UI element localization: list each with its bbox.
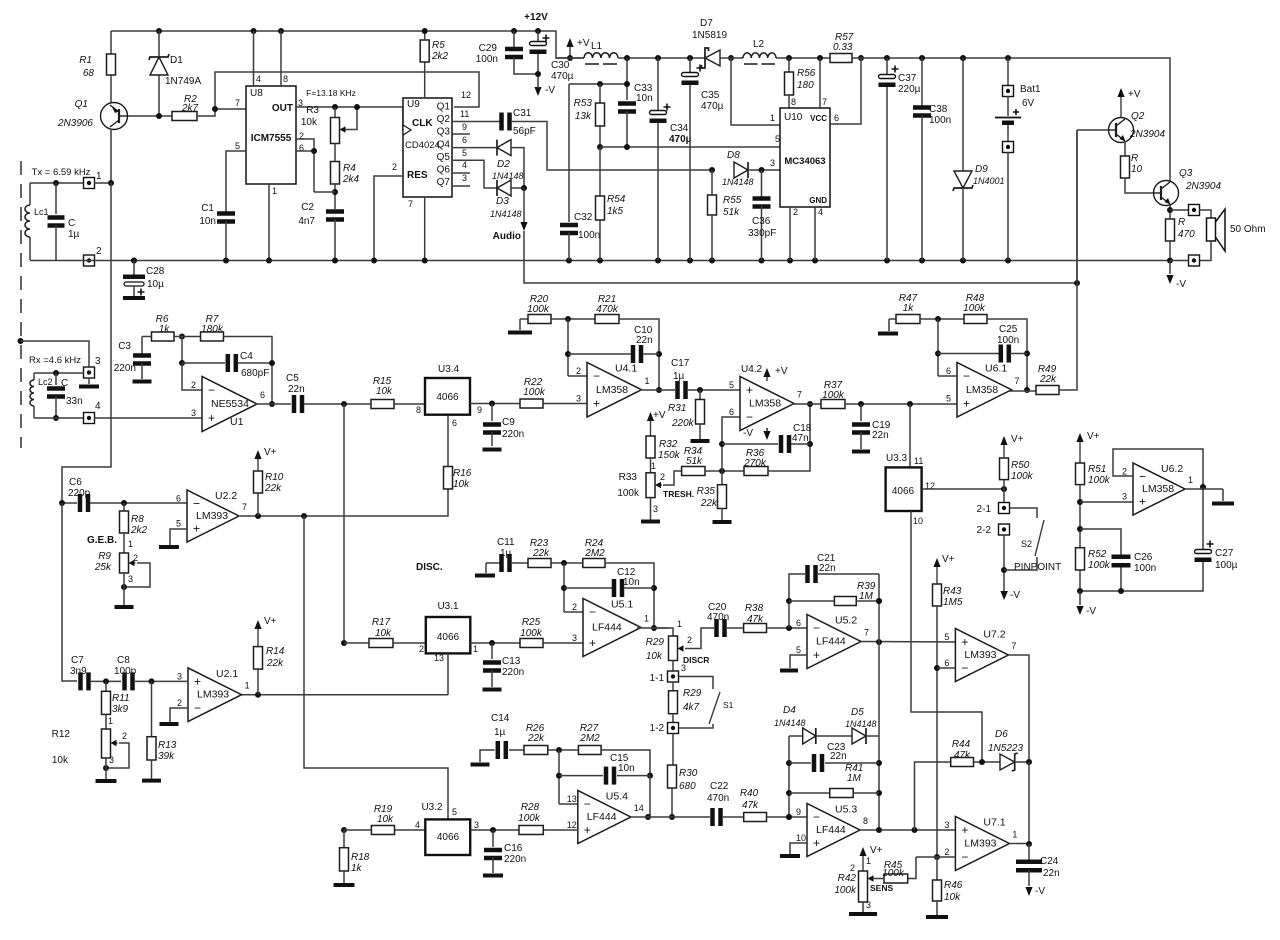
svg-text:2N3904: 2N3904: [1129, 129, 1165, 140]
coil Lc2 shield ground: [18, 338, 24, 344]
svg-text:1: 1: [645, 376, 650, 386]
svg-text:U9: U9: [407, 99, 420, 110]
capacitor C35 470u electrolytic: [687, 55, 693, 61]
wire U6.2 feedback: [1113, 449, 1203, 487]
svg-text:C35: C35: [701, 90, 720, 101]
svg-text:22n: 22n: [819, 563, 836, 574]
capacitor C30 470u electrolytic: [535, 28, 541, 34]
resistor R54: [597, 144, 603, 150]
svg-text:47k: 47k: [954, 750, 971, 761]
resistor R20 100k: [520, 318, 528, 320]
node U2.2 output: [240, 489, 448, 516]
svg-text:2: 2: [392, 162, 397, 172]
svg-text:1N5819: 1N5819: [692, 30, 727, 41]
op-amp U4.1 LM358: [568, 375, 587, 377]
op-amp U7.1 LM393: [955, 817, 1009, 871]
svg-text:11: 11: [914, 456, 923, 466]
svg-text:SENS: SENS: [870, 883, 893, 893]
svg-text:10k: 10k: [376, 386, 393, 397]
svg-text:+: +: [593, 397, 600, 411]
resistor R55: [711, 170, 713, 195]
svg-text:8: 8: [416, 405, 421, 415]
svg-text:3: 3: [191, 408, 196, 418]
svg-text:R17: R17: [372, 617, 391, 628]
svg-text:10n: 10n: [618, 763, 635, 774]
resistor R57 0.33: [830, 54, 852, 63]
svg-text:G.E.B.: G.E.B.: [87, 535, 117, 546]
wire U5.2 plus ground: [790, 655, 807, 668]
svg-text:R40: R40: [740, 788, 759, 799]
resistor R48 100k: [964, 315, 987, 324]
capacitor C8 100p: [122, 672, 127, 690]
svg-text:R18: R18: [351, 852, 370, 863]
svg-text:2: 2: [576, 366, 581, 376]
svg-text:V+: V+: [870, 845, 883, 856]
svg-text:10k: 10k: [453, 479, 470, 490]
svg-text:+: +: [813, 836, 820, 850]
svg-text:2: 2: [850, 863, 855, 873]
svg-text:R16: R16: [453, 468, 472, 479]
resistor R30 680: [672, 734, 674, 766]
svg-text:R5: R5: [432, 40, 445, 51]
capacitor C34 470u electrolytic: [655, 55, 661, 61]
wire rail right section: [852, 58, 1170, 181]
svg-text:3: 3: [128, 574, 133, 584]
svg-text:5: 5: [944, 632, 949, 642]
svg-text:3: 3: [572, 633, 577, 643]
svg-text:U1: U1: [230, 416, 244, 428]
wire Audio arrow: [523, 188, 525, 222]
svg-text:22k: 22k: [700, 498, 718, 509]
capacitor C20 470n: [714, 619, 719, 637]
svg-text:7: 7: [242, 502, 247, 512]
schottky diode D7 1N5819: [705, 50, 720, 66]
svg-text:U4.1: U4.1: [615, 363, 637, 375]
svg-text:10: 10: [913, 516, 923, 526]
svg-text:R29: R29: [646, 637, 665, 648]
svg-text:PINPOINT: PINPOINT: [1014, 562, 1061, 573]
svg-text:7: 7: [822, 97, 827, 107]
diode D3 1N4148: [452, 160, 497, 188]
svg-text:Lc2: Lc2: [38, 377, 53, 387]
resistor R37 100k: [821, 400, 845, 409]
op-amp U6.1 LM358: [938, 375, 957, 377]
potentiometer R42 100k SENS: [862, 855, 864, 871]
svg-text:1N4148: 1N4148: [490, 209, 522, 219]
svg-text:180: 180: [797, 80, 814, 91]
svg-text:1µ: 1µ: [673, 371, 685, 382]
svg-text:C36: C36: [752, 216, 771, 227]
svg-text:R25: R25: [522, 617, 541, 628]
svg-text:R11: R11: [112, 693, 130, 704]
svg-text:V+: V+: [264, 616, 277, 627]
capacitor C1: [217, 211, 235, 216]
svg-text:1: 1: [108, 716, 113, 726]
svg-text:R50: R50: [1011, 460, 1030, 471]
wire U8 pins 4 8 to rail: [251, 28, 257, 34]
wire U8 pin 1 to bus: [268, 184, 270, 260]
battery Bat1 6V: [1005, 55, 1011, 61]
svg-text:Q7: Q7: [437, 177, 451, 188]
svg-text:Rx =4.6 kHz: Rx =4.6 kHz: [29, 355, 81, 366]
power -V arrow below C30: [534, 87, 541, 96]
svg-text:6: 6: [796, 618, 801, 628]
svg-text:R44: R44: [952, 739, 971, 750]
svg-text:51k: 51k: [686, 456, 703, 467]
svg-text:-V: -V: [1176, 279, 1186, 290]
svg-text:100n: 100n: [929, 115, 951, 126]
wire D6 to U7.1 output: [1028, 762, 1030, 844]
resistor R6: [152, 332, 175, 341]
svg-text:7: 7: [408, 199, 413, 209]
svg-text:39k: 39k: [158, 751, 175, 762]
svg-text:100k: 100k: [1011, 471, 1034, 482]
power +V arrow: [569, 46, 571, 58]
svg-text:L1: L1: [591, 41, 603, 52]
svg-text:100k: 100k: [963, 303, 986, 314]
svg-text:14: 14: [634, 803, 644, 813]
resistor R32 150k: [650, 420, 652, 436]
wire to U1 minus: [182, 363, 202, 390]
svg-text:10k: 10k: [52, 755, 69, 766]
svg-text:22k: 22k: [266, 658, 284, 669]
resistor R14 22k: [254, 647, 263, 670]
svg-text:+: +: [1139, 495, 1146, 509]
svg-text:+: +: [194, 674, 201, 688]
svg-text:2M2: 2M2: [579, 733, 600, 744]
svg-text:2-2: 2-2: [977, 525, 992, 536]
op-amp U1 NE5534: [202, 377, 257, 432]
wire U2.1 minus ground: [170, 708, 188, 722]
svg-text:1: 1: [651, 461, 656, 471]
svg-text:U10: U10: [784, 112, 803, 123]
svg-text:270k: 270k: [743, 458, 767, 469]
svg-text:Q2: Q2: [437, 114, 451, 125]
svg-text:C4: C4: [240, 351, 253, 362]
svg-text:D7: D7: [700, 18, 713, 29]
svg-text:R55: R55: [723, 195, 742, 206]
svg-text:2: 2: [793, 207, 798, 217]
IC U9 CD4024: [403, 98, 452, 197]
wire R to Q3 base: [1125, 178, 1154, 193]
svg-text:680pF: 680pF: [241, 368, 269, 379]
svg-text:6: 6: [834, 113, 839, 123]
resistor R56: [786, 55, 792, 61]
svg-text:ICM7555: ICM7555: [251, 133, 292, 144]
svg-text:68: 68: [83, 68, 95, 79]
svg-text:LM393: LM393: [964, 649, 996, 661]
svg-text:C1: C1: [201, 203, 214, 214]
svg-text:2k2: 2k2: [431, 51, 449, 62]
resistor R29 4k7: [672, 682, 674, 691]
svg-text:C34: C34: [670, 123, 689, 134]
svg-text:4: 4: [415, 820, 420, 830]
svg-text:10k: 10k: [646, 651, 663, 662]
svg-text:C5: C5: [286, 373, 299, 384]
resistor R23 22k: [528, 559, 551, 568]
svg-text:C30: C30: [551, 60, 570, 71]
op-amp U4.2 LM358: [740, 377, 794, 431]
svg-text:5: 5: [729, 380, 734, 390]
svg-text:47k: 47k: [747, 614, 764, 625]
op-amp U2.2 LM393: [187, 490, 239, 542]
svg-text:U3.4: U3.4: [438, 364, 460, 375]
resistor R34 51k: [682, 467, 705, 476]
capacitor C22 470n: [710, 808, 715, 826]
capacitor C Tx 1u: [53, 180, 59, 186]
svg-text:22k: 22k: [527, 733, 545, 744]
svg-text:R10: R10: [265, 472, 284, 483]
svg-text:1: 1: [644, 614, 649, 624]
svg-text:R29: R29: [683, 688, 702, 699]
svg-text:100k: 100k: [617, 488, 640, 499]
svg-text:10k: 10k: [377, 814, 394, 825]
svg-text:D8: D8: [727, 150, 740, 161]
node U5.1 output: [651, 625, 657, 631]
svg-text:9: 9: [462, 122, 467, 132]
svg-text:2: 2: [687, 635, 692, 645]
op-amp U5.1 LF444: [564, 611, 583, 613]
svg-text:150k: 150k: [658, 450, 681, 461]
op-amp U2.1 LM393: [188, 668, 242, 722]
svg-text:7: 7: [1011, 641, 1016, 651]
svg-text:1N4148: 1N4148: [774, 718, 806, 728]
svg-text:470µ: 470µ: [669, 134, 692, 145]
svg-text:+12V: +12V: [524, 12, 548, 23]
svg-text:100µ: 100µ: [1215, 560, 1238, 571]
svg-text:1µ: 1µ: [500, 548, 512, 559]
svg-text:−: −: [813, 810, 820, 824]
resistor R21 470k: [595, 315, 619, 324]
svg-text:2: 2: [944, 847, 949, 857]
svg-text:220k: 220k: [671, 418, 695, 429]
node U6.1 output: [1024, 387, 1030, 393]
svg-text:U3.3: U3.3: [886, 453, 908, 464]
svg-text:C9: C9: [502, 417, 515, 428]
zener diode D6 1N5223: [1000, 754, 1015, 770]
svg-text:U6.2: U6.2: [1161, 463, 1183, 475]
svg-text:10n: 10n: [636, 93, 653, 104]
capacitor C16 220n: [492, 830, 494, 847]
resistor R41 1M: [789, 792, 829, 794]
svg-text:VCC: VCC: [810, 114, 827, 123]
resistor R44 47k: [951, 758, 974, 767]
svg-text:2k7: 2k7: [181, 103, 199, 114]
svg-text:C26: C26: [1134, 552, 1153, 563]
svg-text:LM358: LM358: [1142, 483, 1174, 495]
svg-text:10k: 10k: [944, 892, 961, 903]
svg-text:S1: S1: [723, 700, 734, 710]
svg-text:2N3906: 2N3906: [57, 118, 93, 129]
wire R44 tap: [915, 762, 951, 830]
svg-text:7: 7: [797, 390, 802, 400]
svg-text:22k: 22k: [1039, 374, 1057, 385]
wire left vertical to C7: [62, 503, 77, 681]
svg-text:Q3: Q3: [1179, 168, 1193, 179]
svg-text:LF444: LF444: [816, 636, 846, 648]
transistor Q3 2N3904: [1154, 181, 1179, 206]
svg-text:330pF: 330pF: [748, 228, 776, 239]
svg-text:220n: 220n: [502, 429, 524, 440]
svg-text:C31: C31: [513, 108, 532, 119]
svg-text:6: 6: [462, 135, 467, 145]
node R4 C2 junction: [334, 184, 336, 209]
svg-text:Audio: Audio: [493, 231, 521, 242]
svg-text:3n9: 3n9: [70, 666, 87, 677]
svg-text:C3: C3: [118, 341, 131, 352]
svg-text:100n: 100n: [476, 54, 498, 65]
resistor R31 220k: [699, 390, 701, 400]
svg-text:13k: 13k: [575, 111, 592, 122]
svg-text:LF444: LF444: [816, 824, 846, 836]
svg-text:1k: 1k: [159, 324, 171, 335]
svg-text:1k: 1k: [903, 303, 915, 314]
svg-text:R33: R33: [619, 472, 638, 483]
svg-text:−: −: [194, 701, 201, 715]
svg-text:100n: 100n: [997, 335, 1019, 346]
wire audio to Q2 base: [524, 231, 1077, 283]
svg-text:4k7: 4k7: [683, 702, 700, 713]
svg-text:2-1: 2-1: [977, 504, 992, 515]
capacitor C29: [511, 28, 517, 34]
svg-text:12: 12: [567, 820, 577, 830]
IC U10 MC34063: [780, 108, 830, 207]
capacitor C19 22n: [858, 401, 864, 407]
svg-text:100k: 100k: [1088, 475, 1111, 486]
svg-text:6: 6: [452, 418, 457, 428]
resistor R53: [569, 83, 627, 85]
resistor R39 1M: [786, 598, 792, 604]
resistor R47 1k: [889, 318, 896, 320]
IC U8 ICM7555: [246, 86, 296, 184]
svg-text:R8: R8: [131, 514, 144, 525]
svg-text:+: +: [589, 636, 596, 650]
svg-text:2: 2: [419, 644, 424, 654]
svg-text:1-2: 1-2: [650, 723, 665, 734]
svg-text:R9: R9: [98, 551, 111, 562]
svg-text:12: 12: [461, 90, 471, 100]
svg-text:1: 1: [1012, 830, 1017, 840]
svg-text:+V: +V: [577, 38, 590, 49]
svg-text:3: 3: [770, 158, 775, 168]
svg-text:1: 1: [473, 644, 478, 654]
svg-text:V+: V+: [1087, 431, 1100, 442]
resistor R19 10k: [341, 827, 347, 833]
node U3.1 output: [470, 642, 520, 644]
svg-text:5: 5: [176, 519, 181, 529]
wire U10 pin6: [858, 55, 864, 61]
svg-text:100k: 100k: [523, 387, 546, 398]
resistor R3 trimmer: [332, 104, 338, 110]
svg-text:C13: C13: [502, 656, 521, 667]
switch S1: [679, 677, 714, 690]
svg-text:100n: 100n: [578, 230, 600, 241]
svg-text:−: −: [584, 797, 591, 811]
potentiometer R9 25k: [123, 533, 125, 553]
svg-text:R: R: [1131, 153, 1138, 164]
bottom bus: [30, 260, 1170, 262]
svg-text:-V: -V: [545, 85, 555, 96]
svg-text:1µ: 1µ: [494, 727, 506, 738]
svg-text:+: +: [961, 823, 968, 837]
svg-text:R3: R3: [306, 105, 319, 116]
svg-text:D6: D6: [995, 729, 1008, 740]
resistor R10 22k: [257, 493, 259, 516]
resistor R13 39k: [151, 681, 153, 736]
wire U2.2 plus to ground: [170, 529, 187, 545]
svg-text:OUT: OUT: [272, 103, 293, 114]
resistor R45 100k: [908, 857, 916, 879]
svg-text:47k: 47k: [742, 800, 759, 811]
svg-text:22k: 22k: [264, 483, 282, 494]
wire U8 pins 2 6 junction: [296, 139, 314, 192]
svg-text:10k: 10k: [375, 628, 392, 639]
connector 2-1: [999, 503, 1010, 514]
svg-text:CD4024: CD4024: [405, 140, 440, 151]
svg-text:2: 2: [572, 602, 577, 612]
wire U6.2 plus input: [1080, 501, 1133, 503]
node U5.3 output: [861, 829, 956, 831]
wire Rx to U1 plus input: [94, 417, 202, 419]
svg-text:C32: C32: [574, 212, 593, 223]
capacitor C32: [568, 84, 570, 222]
switch S2: [1010, 508, 1038, 518]
resistor R15: [371, 400, 394, 409]
svg-text:C: C: [61, 378, 68, 389]
capacitor C26 100n: [1080, 529, 1121, 555]
svg-text:3k9: 3k9: [112, 704, 129, 715]
svg-text:C8: C8: [117, 655, 130, 666]
svg-text:Q4: Q4: [437, 140, 451, 151]
svg-text:Q1: Q1: [437, 102, 451, 113]
svg-text:1k5: 1k5: [607, 206, 624, 217]
svg-text:5: 5: [462, 148, 467, 158]
svg-text:100k: 100k: [822, 390, 845, 401]
svg-text:2N3904: 2N3904: [1185, 181, 1221, 192]
op-amp U5.4 LF444: [559, 803, 578, 805]
capacitor C21 22n: [789, 574, 805, 628]
capacitor C23 22n: [789, 762, 811, 764]
connector 2: [84, 255, 95, 266]
svg-text:1N4148: 1N4148: [492, 171, 524, 181]
svg-text:6V: 6V: [1022, 98, 1035, 109]
wire to U3.3 pin11: [907, 401, 913, 407]
svg-text:U5.1: U5.1: [611, 599, 633, 611]
svg-text:220n: 220n: [504, 854, 526, 865]
svg-text:−: −: [961, 850, 968, 864]
speaker 50 Ohm: [1207, 218, 1216, 241]
capacitor C2: [326, 209, 344, 214]
svg-text:C25: C25: [999, 324, 1018, 335]
wire R49 to -V line: [1059, 130, 1077, 390]
op-amp U7.2 LM393: [955, 629, 1008, 682]
svg-text:3: 3: [576, 394, 581, 404]
svg-text:1N4148: 1N4148: [845, 719, 877, 729]
op-amp U5.2 LF444: [807, 615, 861, 669]
svg-text:LM358: LM358: [596, 384, 628, 396]
svg-text:4066: 4066: [437, 632, 460, 643]
capacitor C24 22n: [1028, 844, 1030, 860]
svg-text:U3.1: U3.1: [437, 601, 459, 612]
svg-text:-V: -V: [1035, 886, 1045, 897]
svg-text:C14: C14: [491, 713, 510, 724]
svg-text:3: 3: [177, 671, 182, 681]
resistor R28 100k: [519, 826, 543, 835]
connector 1-1: [672, 661, 674, 672]
capacitor C25 100n: [937, 319, 939, 376]
svg-text:C7: C7: [71, 655, 84, 666]
svg-text:5: 5: [452, 807, 457, 817]
